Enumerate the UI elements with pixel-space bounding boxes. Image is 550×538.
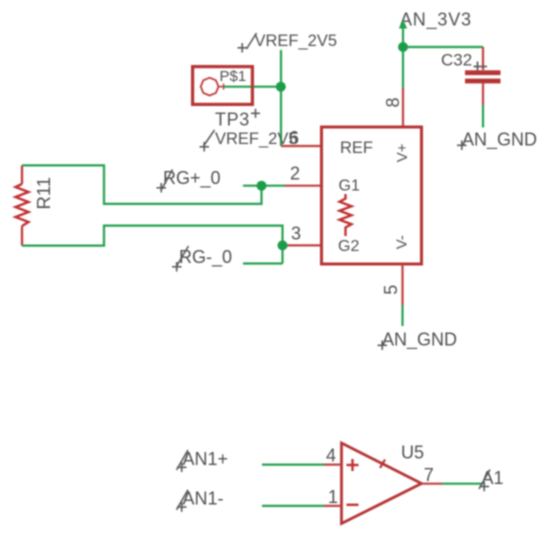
wire R11 bottom to RG- node — [22, 226, 283, 264]
IC box (instrumentation amplifier) — [322, 127, 422, 264]
svg-text:AN_3V3: AN_3V3 — [400, 10, 472, 31]
svg-text:VREF_2V5: VREF_2V5 — [255, 32, 338, 50]
wire RG- label wire — [243, 262, 283, 264]
wire AN1- to pin 1 — [262, 505, 324, 507]
pin 7 wire (red) — [421, 483, 442, 485]
junction B (VREF node) — [276, 82, 286, 92]
label AN1+ — [177, 449, 229, 472]
wire RG+ label to pin 2 — [243, 185, 285, 187]
supply AN_GND (bottom) — [378, 330, 458, 351]
svg-text:C32: C32 — [441, 50, 472, 69]
junction D (RG- node) — [278, 240, 288, 250]
pin 8 wire (red) — [402, 88, 404, 127]
svg-text:V-: V- — [394, 235, 411, 249]
label A1 — [479, 468, 504, 491]
svg-text:AN_GND: AN_GND — [462, 129, 537, 150]
wire junction down to pin 8 — [402, 47, 404, 88]
svg-text:P$1: P$1 — [220, 68, 247, 85]
pin 5 wire (red) — [401, 264, 403, 305]
svg-text:8: 8 — [383, 97, 403, 107]
label RG+_0 — [157, 168, 221, 193]
svg-text:U5: U5 — [401, 443, 424, 463]
svg-text:G2: G2 — [338, 238, 359, 255]
resistor R11 — [16, 165, 55, 245]
svg-text:AN_GND: AN_GND — [382, 330, 457, 351]
svg-text:4: 4 — [326, 446, 336, 466]
wire R11 top to RG+ junction — [22, 165, 262, 204]
wire junction to C32 corner — [403, 46, 483, 48]
wire VREF_2V5 vertical — [280, 50, 282, 146]
op-amp U5 — [342, 443, 425, 524]
junction C (RG+ node) — [257, 181, 267, 191]
pin 4 wire (red) — [324, 464, 342, 466]
svg-text:R11: R11 — [33, 177, 54, 210]
testpoint TP3 — [193, 67, 260, 130]
label VREF_2V5 (top) — [238, 32, 338, 53]
svg-text:V+: V+ — [394, 143, 411, 162]
wire AN_3V3 down to junction — [402, 26, 404, 47]
internal resistor zigzag G1-G2 — [340, 194, 352, 236]
svg-text:7: 7 — [424, 465, 434, 485]
label AN1- — [177, 489, 224, 512]
svg-text:3: 3 — [291, 224, 301, 244]
svg-text:2: 2 — [290, 164, 300, 184]
wire output to A1 — [442, 483, 482, 485]
svg-text:REF: REF — [340, 139, 373, 157]
supply AN_3V3 — [399, 10, 472, 31]
junction A (AN_3V3 node) — [398, 42, 408, 52]
wire C32 to AN_GND — [482, 105, 484, 128]
pin 3 wire (red) — [284, 244, 320, 246]
pin 2 wire (red) — [285, 185, 321, 187]
svg-text:5: 5 — [381, 285, 401, 295]
pin REF wire (red) — [281, 145, 320, 147]
svg-text:AN1-: AN1- — [183, 489, 224, 509]
label RG-_0 — [172, 246, 232, 272]
svg-text:AN1+: AN1+ — [183, 449, 229, 469]
supply AN_GND (right) — [457, 129, 537, 150]
wire TP3 to junction — [224, 86, 281, 88]
pin 1 wire (red) — [324, 505, 342, 507]
label VREF_2V5 (lower, at REF pin) — [200, 130, 298, 152]
svg-text:TP3: TP3 — [215, 109, 250, 129]
svg-text:1: 1 — [328, 487, 338, 507]
capacitor C32 — [441, 47, 501, 105]
wire pin5 to AN_GND — [401, 305, 403, 326]
svg-text:G1: G1 — [339, 178, 360, 195]
wire AN1+ to pin 4 — [262, 464, 324, 466]
